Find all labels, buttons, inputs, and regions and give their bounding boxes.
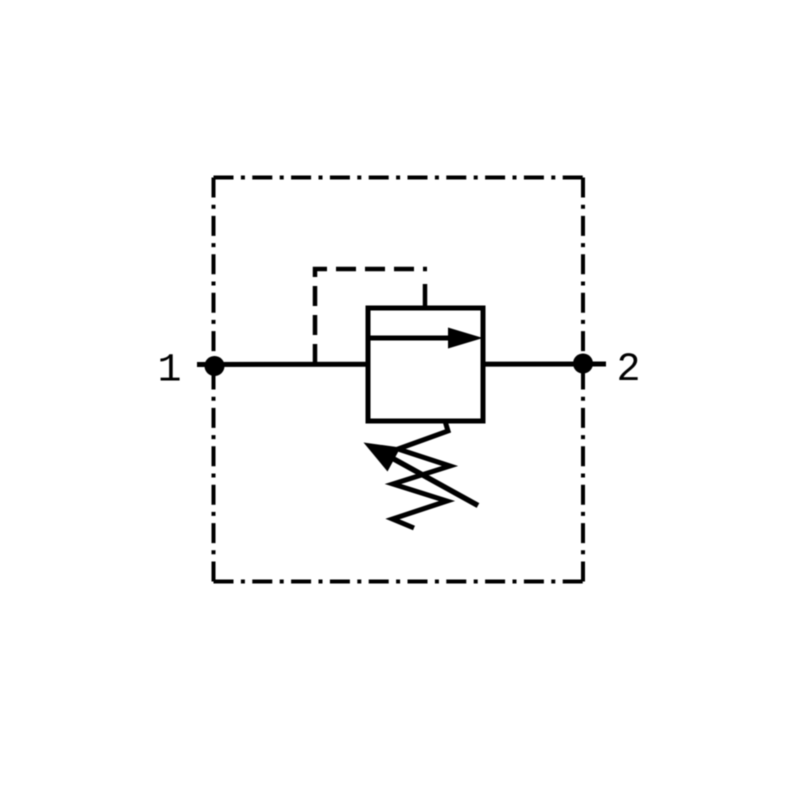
svg-text:1: 1 <box>157 349 181 394</box>
svg-text:2: 2 <box>616 348 640 393</box>
